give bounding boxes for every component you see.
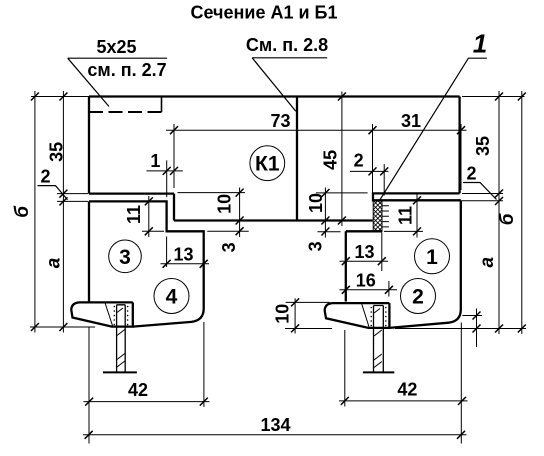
svg-text:2: 2 xyxy=(466,164,476,184)
svg-text:3: 3 xyxy=(219,242,239,252)
right foot xyxy=(325,303,390,328)
svg-text:a: a xyxy=(477,256,498,267)
left side dimension lines b,35,2,a xyxy=(30,91,95,333)
svg-text:2: 2 xyxy=(40,166,50,186)
batten 5x25 dashed xyxy=(89,111,162,113)
gasket hatch strip xyxy=(373,201,382,231)
circle K1 xyxy=(250,146,285,181)
svg-text:1: 1 xyxy=(150,151,160,171)
dimension 11 left xyxy=(142,196,164,237)
svg-text:10: 10 xyxy=(273,304,293,324)
dimension 16 xyxy=(340,281,398,297)
circle 2 xyxy=(401,279,436,314)
svg-text:2: 2 xyxy=(412,286,424,309)
svg-text:13: 13 xyxy=(173,244,193,264)
circle 1 xyxy=(415,239,450,274)
svg-text:5х25: 5х25 xyxy=(96,37,136,57)
svg-text:a: a xyxy=(44,257,65,268)
lower-right block xyxy=(346,200,461,328)
svg-text:73: 73 xyxy=(270,111,290,131)
right screw xyxy=(374,306,384,373)
svg-text:см. п. 2.7: см. п. 2.7 xyxy=(87,60,166,80)
svg-text:35: 35 xyxy=(46,142,66,162)
upper slab K1 outline xyxy=(89,97,460,221)
dimension 11 right xyxy=(384,195,423,238)
svg-text:13: 13 xyxy=(354,242,374,262)
svg-text:11: 11 xyxy=(396,206,416,225)
joint line between slabs xyxy=(296,97,298,221)
dimension 45 xyxy=(341,92,343,227)
svg-text:42: 42 xyxy=(397,379,417,399)
svg-text:4: 4 xyxy=(166,286,178,309)
svg-text:См. п. 2.8: См. п. 2.8 xyxy=(246,35,328,55)
dimension 1 xyxy=(147,160,183,197)
circle 3 xyxy=(109,240,142,273)
dimension 2 middle xyxy=(350,164,389,196)
svg-text:3: 3 xyxy=(306,241,326,251)
dimension 42 left xyxy=(84,322,210,444)
dimension 13 right xyxy=(340,233,389,272)
left screw xyxy=(117,305,126,373)
right slab right edge and bottom lip xyxy=(373,97,461,201)
lower-left block xyxy=(89,201,204,326)
left foot xyxy=(71,302,133,326)
svg-text:16: 16 xyxy=(356,270,376,290)
svg-text:11: 11 xyxy=(124,205,144,224)
svg-text:3: 3 xyxy=(119,246,131,269)
svg-text:б: б xyxy=(497,212,518,225)
circle 4 xyxy=(154,279,189,314)
svg-text:2: 2 xyxy=(354,151,364,171)
svg-text:б: б xyxy=(12,205,33,218)
svg-text:10: 10 xyxy=(215,194,235,214)
svg-text:Сечение А1 и Б1: Сечение А1 и Б1 xyxy=(191,3,338,23)
svg-text:31: 31 xyxy=(401,111,421,131)
gasket fins xyxy=(382,206,389,227)
extension lines for 73/31 xyxy=(174,124,461,200)
svg-text:К1: К1 xyxy=(255,153,280,176)
svg-text:134: 134 xyxy=(260,415,290,435)
dimension 73 and 31 line xyxy=(166,129,467,131)
dimension 42 right xyxy=(339,323,468,444)
svg-text:45: 45 xyxy=(320,150,340,170)
svg-text:1: 1 xyxy=(473,29,487,59)
right side dimension lines 35,2,a,b xyxy=(395,91,526,347)
svg-text:1: 1 xyxy=(426,246,438,269)
tick marks xyxy=(31,93,526,439)
dimension 13 left xyxy=(161,237,210,268)
dimension 134 xyxy=(83,434,467,436)
svg-text:42: 42 xyxy=(128,380,148,400)
dimension 10/3 left xyxy=(178,188,249,238)
dimension 10/3 right xyxy=(316,188,368,238)
svg-text:35: 35 xyxy=(473,136,493,156)
dimension 10 right foot xyxy=(285,298,332,333)
